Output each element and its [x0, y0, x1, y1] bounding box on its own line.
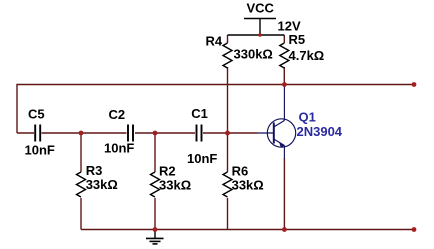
- svg-text:R3: R3: [86, 163, 103, 178]
- svg-text:33kΩ: 33kΩ: [232, 177, 264, 192]
- svg-text:VCC: VCC: [247, 0, 275, 15]
- svg-text:330kΩ: 330kΩ: [234, 47, 273, 62]
- svg-text:C2: C2: [109, 107, 126, 122]
- svg-text:4.7kΩ: 4.7kΩ: [289, 48, 325, 63]
- svg-text:C1: C1: [191, 106, 208, 121]
- svg-text:10nF: 10nF: [187, 151, 217, 166]
- svg-text:R6: R6: [232, 164, 249, 179]
- svg-text:R4: R4: [206, 33, 223, 48]
- svg-text:10nF: 10nF: [104, 141, 134, 156]
- svg-text:33kΩ: 33kΩ: [86, 177, 118, 192]
- svg-text:R2: R2: [159, 164, 176, 179]
- svg-text:33kΩ: 33kΩ: [159, 177, 191, 192]
- svg-text:Q1: Q1: [299, 110, 316, 125]
- svg-text:R5: R5: [289, 32, 306, 47]
- svg-text:2N3904: 2N3904: [297, 124, 343, 139]
- svg-text:10nF: 10nF: [25, 143, 55, 158]
- svg-text:C5: C5: [28, 107, 45, 122]
